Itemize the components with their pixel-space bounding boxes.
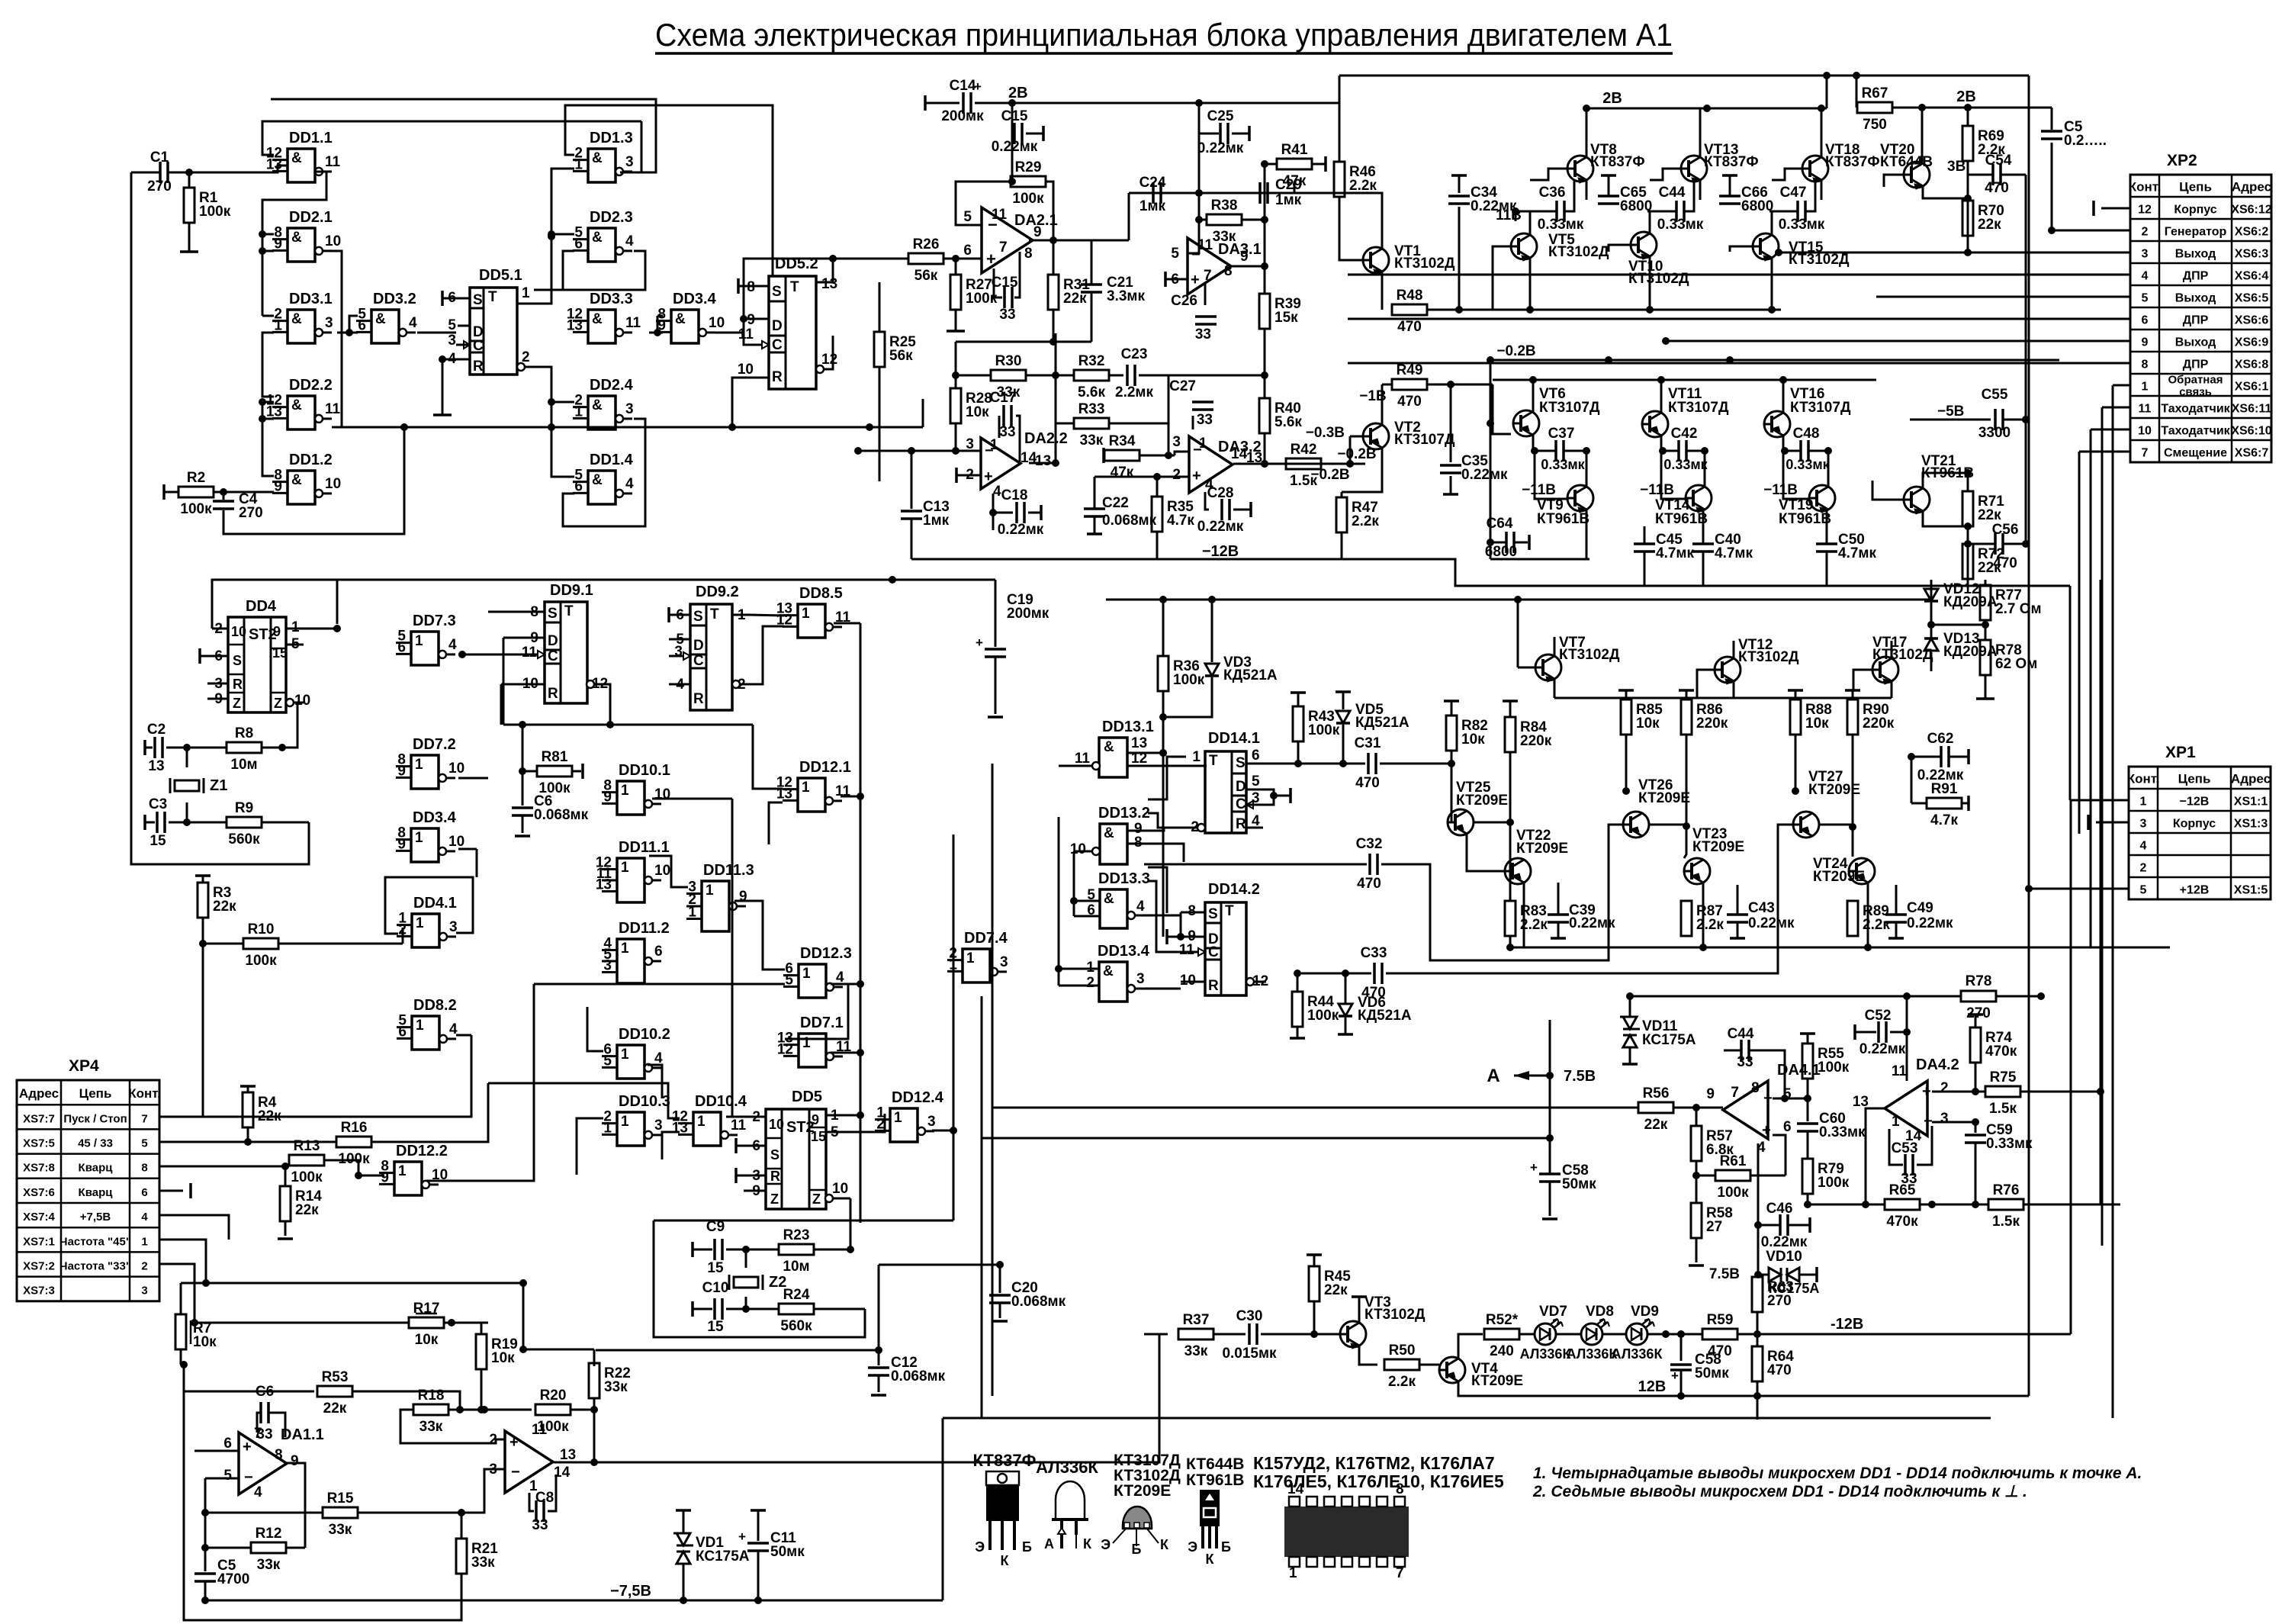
svg-text:C37: C37 bbox=[1548, 426, 1575, 442]
vx618c bbox=[203, 1035, 471, 1117]
transistor VT18 bbox=[1802, 156, 1828, 182]
svg-text:4: 4 bbox=[448, 637, 457, 653]
flip-flop DD5.1 bbox=[470, 288, 517, 375]
svg-text:S: S bbox=[233, 653, 242, 668]
svg-text:D: D bbox=[772, 318, 783, 334]
svg-text:11: 11 bbox=[625, 315, 641, 331]
wire XP2 pin2 bbox=[2052, 230, 2130, 232]
resistor R23 bbox=[746, 1249, 779, 1251]
svg-text:−: − bbox=[1193, 442, 1202, 458]
capacitor C43 bbox=[1727, 915, 1748, 922]
maze dd12.3 feed bbox=[534, 983, 785, 986]
svg-text:6800: 6800 bbox=[1485, 544, 1517, 560]
maze dd121b bbox=[769, 802, 783, 844]
svg-text:1: 1 bbox=[1192, 749, 1201, 765]
svg-text:S: S bbox=[1236, 755, 1246, 771]
svg-text:XP2: XP2 bbox=[2167, 152, 2197, 169]
transistor VT21 bbox=[1904, 487, 1930, 513]
capacitor C65 bbox=[1598, 196, 1619, 204]
wire DA2.2 out bbox=[1029, 462, 1056, 465]
led VD9 bbox=[1626, 1323, 1647, 1345]
wire VT1 emitter bbox=[1381, 272, 1384, 310]
svg-text:62 Ом: 62 Ом bbox=[1995, 656, 2037, 672]
resistor R14 bbox=[284, 1166, 287, 1186]
transistor VT24 bbox=[1849, 858, 1875, 884]
maze dd104 bbox=[488, 1083, 680, 1118]
capacitor C53 bbox=[1889, 1129, 1903, 1165]
svg-text:4: 4 bbox=[625, 233, 634, 249]
svg-text:&: & bbox=[592, 311, 603, 327]
svg-text:C43: C43 bbox=[1748, 900, 1775, 916]
svg-text:DD8.2: DD8.2 bbox=[413, 997, 457, 1014]
svg-text:DA1.1: DA1.1 bbox=[281, 1426, 324, 1443]
capacitor C12 bbox=[596, 1349, 879, 1352]
resistor R29 bbox=[1011, 176, 1046, 187]
svg-text:6: 6 bbox=[223, 1436, 232, 1452]
resistor R87 bbox=[1681, 901, 1692, 936]
ground to XP2 pin12 bbox=[2101, 207, 2130, 210]
svg-text:−0.2В: −0.2В bbox=[1496, 343, 1535, 359]
svg-text:C6: C6 bbox=[256, 1384, 274, 1400]
svg-text:C17: C17 bbox=[990, 390, 1017, 406]
svg-text:7.5В: 7.5В bbox=[1709, 1266, 1740, 1282]
maze dd41loop bbox=[385, 877, 473, 934]
svg-text:КТ837Ф: КТ837Ф bbox=[973, 1451, 1037, 1470]
svg-text:+: + bbox=[1762, 1122, 1771, 1139]
svg-text:Б: Б bbox=[1132, 1542, 1142, 1557]
gate DD1.4 bbox=[588, 471, 616, 504]
svg-text:220к: 220к bbox=[1520, 733, 1552, 749]
svg-text:9: 9 bbox=[812, 1112, 819, 1127]
svg-text:XS6:10: XS6:10 bbox=[2231, 425, 2271, 438]
gate DD13.2 bbox=[1100, 824, 1127, 864]
svg-text:220к: 220к bbox=[1696, 716, 1728, 732]
maze r10dd41 bbox=[402, 928, 404, 944]
transistor VT6 bbox=[1513, 410, 1539, 436]
svg-text:1: 1 bbox=[802, 1035, 811, 1051]
resistor R61 bbox=[1696, 1175, 1715, 1177]
resistor R89 bbox=[1847, 901, 1858, 936]
svg-text:C32: C32 bbox=[1356, 836, 1383, 852]
wire bbox=[522, 1283, 525, 1349]
svg-text:6: 6 bbox=[654, 944, 663, 960]
transistor VT9 bbox=[1567, 485, 1593, 511]
svg-text:3: 3 bbox=[325, 315, 333, 331]
svg-text:2.2к: 2.2к bbox=[1863, 917, 1890, 933]
svg-text:8: 8 bbox=[1224, 263, 1233, 279]
wire C31 line bbox=[1263, 763, 1365, 765]
svg-text:R65: R65 bbox=[1889, 1182, 1916, 1198]
wire dd5.2 12 out bbox=[824, 336, 833, 369]
wire XP2 pin3 bbox=[1779, 252, 2130, 254]
svg-text:+7,5В: +7,5В bbox=[80, 1211, 111, 1224]
resistor R34 bbox=[1102, 448, 1105, 463]
svg-text:КТ3102Д: КТ3102Д bbox=[1394, 256, 1455, 272]
resistor R26 bbox=[908, 253, 943, 264]
svg-text:8: 8 bbox=[141, 1162, 147, 1175]
svg-text:R29: R29 bbox=[1015, 159, 1042, 175]
wire XP4 pin7b bbox=[159, 1108, 203, 1117]
svg-text:R52*: R52* bbox=[1486, 1312, 1519, 1328]
svg-text:Адрес: Адрес bbox=[2231, 772, 2271, 786]
svg-text:Схема электрическая принципиал: Схема электрическая принципиальная блока… bbox=[655, 17, 1673, 53]
resistor R78b bbox=[1961, 991, 1996, 1002]
svg-text:−: − bbox=[511, 1464, 520, 1481]
svg-text:КТ209Е: КТ209Е bbox=[1808, 782, 1860, 798]
svg-text:10: 10 bbox=[654, 863, 670, 879]
wire x1408 bbox=[1073, 851, 1075, 916]
svg-text:0.068мк: 0.068мк bbox=[1102, 513, 1157, 529]
wire DA4.1 +in bbox=[1773, 1135, 1786, 1175]
svg-text:5: 5 bbox=[963, 209, 972, 225]
svg-text:10: 10 bbox=[448, 761, 464, 777]
wire XP1 pin1 bbox=[2071, 799, 2129, 802]
vx618b bbox=[471, 1035, 473, 1117]
svg-text:&: & bbox=[1104, 825, 1114, 841]
transistor VT10 bbox=[1631, 232, 1657, 258]
svg-text:DD12.1: DD12.1 bbox=[799, 759, 851, 776]
wire x1532 bbox=[1168, 375, 1170, 455]
w134f bbox=[1135, 988, 1181, 990]
svg-text:Z: Z bbox=[770, 1191, 779, 1207]
wire VT23 bbox=[1684, 826, 1686, 858]
wa bbox=[649, 856, 688, 887]
svg-text:VD8: VD8 bbox=[1586, 1304, 1614, 1320]
resistor R58 bbox=[1696, 1175, 1698, 1203]
maze dd102b bbox=[648, 1065, 662, 1098]
resistor R53 bbox=[184, 1365, 314, 1391]
svg-text:22к: 22к bbox=[1324, 1282, 1348, 1298]
svg-text:0.22мк: 0.22мк bbox=[998, 522, 1044, 538]
svg-text:33: 33 bbox=[999, 424, 1015, 440]
wire to VT5 bbox=[1493, 246, 1511, 310]
svg-text:КТ961В: КТ961В bbox=[1779, 511, 1831, 527]
svg-text:56к: 56к bbox=[889, 348, 913, 364]
gate DD3.4b bbox=[411, 828, 439, 862]
svg-text:100к: 100к bbox=[199, 204, 231, 220]
capacitor C33 bbox=[1374, 963, 1382, 984]
wire bbox=[271, 99, 656, 172]
diode VD13 bbox=[1924, 638, 1938, 651]
svg-text:DD3.2: DD3.2 bbox=[373, 291, 416, 307]
gate DD12.2 bbox=[394, 1162, 422, 1195]
wire rail2 bbox=[1106, 599, 1930, 601]
op-amp DA1.1 bbox=[239, 1433, 287, 1494]
wire VT15 c bbox=[1771, 211, 1773, 236]
gate DD11.1 bbox=[617, 858, 644, 902]
wire VT25 bbox=[1448, 764, 1451, 822]
svg-text:2: 2 bbox=[489, 1432, 497, 1448]
resistor R67 bbox=[1856, 76, 1858, 108]
resistor R85 bbox=[1618, 689, 1634, 692]
wire bbox=[534, 251, 574, 290]
capacitor C35 bbox=[1450, 384, 1452, 462]
wdd85b bbox=[834, 622, 860, 625]
wire C33 line bbox=[1297, 973, 1371, 975]
svg-text:0.22мк: 0.22мк bbox=[1748, 915, 1795, 931]
svg-text:R24: R24 bbox=[783, 1287, 810, 1303]
svg-text:33к: 33к bbox=[1080, 433, 1104, 449]
svg-text:&: & bbox=[375, 311, 386, 327]
svg-text:Адрес: Адрес bbox=[2232, 180, 2271, 195]
wdd13g bbox=[1148, 867, 1167, 913]
capacitor C30 bbox=[1249, 1323, 1257, 1345]
svg-text:DD13.1: DD13.1 bbox=[1102, 719, 1154, 735]
resistor R74 bbox=[1968, 1013, 1983, 1016]
wire bbox=[565, 105, 773, 276]
wire y950 bus bbox=[503, 724, 753, 726]
transistor VT8 bbox=[1567, 156, 1593, 182]
svg-text:C46: C46 bbox=[1766, 1201, 1793, 1217]
wire +12V row bbox=[2028, 889, 2030, 947]
svg-text:C62: C62 bbox=[1927, 731, 1954, 747]
svg-text:XS7:4: XS7:4 bbox=[23, 1211, 55, 1224]
svg-text:2.2к: 2.2к bbox=[1696, 917, 1724, 933]
capacitor C46 bbox=[1780, 1214, 1788, 1236]
svg-text:240: 240 bbox=[1490, 1343, 1514, 1359]
svg-text:0.22мк: 0.22мк bbox=[1461, 467, 1508, 483]
resistor R41 bbox=[1265, 163, 1277, 166]
svg-text:1мк: 1мк bbox=[923, 513, 950, 529]
resistor R90 bbox=[1845, 689, 1860, 692]
wire R70 to out3 bbox=[1967, 236, 1969, 252]
svg-text:13: 13 bbox=[1131, 735, 1147, 751]
wire bbox=[551, 401, 574, 404]
capacitor C44b bbox=[1676, 201, 1684, 222]
svg-text:DD11.2: DD11.2 bbox=[619, 920, 670, 937]
svg-text:DD12.4: DD12.4 bbox=[892, 1089, 944, 1106]
svg-text:АЛ336К: АЛ336К bbox=[1520, 1346, 1572, 1362]
svg-text:33к: 33к bbox=[329, 1522, 352, 1538]
svg-text:1: 1 bbox=[2142, 381, 2149, 394]
svg-text:5: 5 bbox=[448, 317, 456, 333]
resistor R47 bbox=[1341, 492, 1343, 497]
svg-text:КТ209Е: КТ209Е bbox=[1456, 793, 1508, 809]
svg-text:Таходатчик: Таходатчик bbox=[2161, 425, 2230, 438]
capacitor C55 bbox=[1995, 409, 2003, 430]
capacitor C36 bbox=[1516, 211, 1556, 221]
wire VT14 col bbox=[1704, 451, 1706, 487]
svg-text:КТ3107Д: КТ3107Д bbox=[1790, 400, 1851, 416]
svg-text:0.33мк: 0.33мк bbox=[1657, 217, 1704, 233]
svg-text:22к: 22к bbox=[323, 1400, 347, 1417]
svg-text:33: 33 bbox=[256, 1426, 272, 1442]
wire dd5.1 C bbox=[456, 344, 470, 346]
op-amp DA3.2 bbox=[1189, 436, 1233, 493]
wire bbox=[551, 169, 574, 236]
svg-text:10м: 10м bbox=[230, 757, 257, 773]
svg-text:7: 7 bbox=[1204, 268, 1212, 284]
svg-text:0.068мк: 0.068мк bbox=[534, 807, 589, 823]
svg-text:C49: C49 bbox=[1907, 900, 1933, 916]
svg-text:КТ644В: КТ644В bbox=[1186, 1455, 1244, 1473]
svg-text:13: 13 bbox=[148, 758, 164, 774]
wire bbox=[649, 316, 657, 333]
resistor R7 bbox=[180, 1283, 182, 1314]
transistor VT16 bbox=[1764, 411, 1790, 437]
svg-text:1: 1 bbox=[621, 1114, 629, 1130]
wire DA2.2 +in bbox=[955, 468, 958, 483]
svg-text:C31: C31 bbox=[1355, 735, 1381, 751]
svg-text:13: 13 bbox=[821, 276, 837, 292]
svg-text:4: 4 bbox=[993, 484, 1001, 500]
svg-text:3300: 3300 bbox=[1978, 425, 2011, 441]
wire dd2.3 out bbox=[563, 251, 645, 290]
svg-text:DD3.4: DD3.4 bbox=[413, 809, 457, 826]
svg-text:3: 3 bbox=[141, 1285, 147, 1298]
svg-text:33: 33 bbox=[1737, 1054, 1753, 1070]
capacitor C56 bbox=[1995, 533, 2003, 555]
svg-text:1.5к: 1.5к bbox=[1992, 1214, 2020, 1230]
svg-text:Конт.: Конт. bbox=[128, 1086, 161, 1101]
r64c bbox=[1757, 1381, 1759, 1396]
svg-text:C27: C27 bbox=[1169, 378, 1196, 394]
svg-text:T: T bbox=[1225, 903, 1234, 919]
svg-text:4.7мк: 4.7мк bbox=[1656, 545, 1694, 561]
resistor R24 bbox=[746, 1308, 779, 1310]
svg-text:DD11.3: DD11.3 bbox=[703, 862, 754, 879]
svg-text:1.5к: 1.5к bbox=[1989, 1101, 2017, 1117]
svg-text:2В: 2В bbox=[1602, 90, 1622, 107]
svg-text:−7,5В: −7,5В bbox=[610, 1583, 651, 1600]
gate DD10.4 bbox=[693, 1112, 721, 1146]
wire C66 to VT15 base bbox=[1730, 246, 1753, 252]
svg-text:Пуск / Стоп: Пуск / Стоп bbox=[63, 1112, 127, 1125]
gate DD12.3 bbox=[799, 964, 826, 998]
capacitor C5 bbox=[2051, 108, 2053, 130]
wire VT18 base bbox=[1772, 169, 1802, 180]
wire bbox=[1931, 624, 1985, 626]
resistor R69 bbox=[1967, 108, 1969, 126]
svg-text:470к: 470к bbox=[1886, 1214, 1918, 1230]
svg-text:7: 7 bbox=[999, 240, 1008, 256]
svg-text:9: 9 bbox=[291, 1453, 299, 1469]
svg-text:12: 12 bbox=[2138, 204, 2152, 217]
svg-text:1: 1 bbox=[415, 830, 423, 846]
wire dd5.2 D bbox=[744, 318, 769, 320]
wire bbox=[262, 251, 264, 316]
op-amp DA3.1 bbox=[1188, 238, 1231, 294]
resistor R82 bbox=[1444, 699, 1459, 703]
capacitor C42 bbox=[1679, 440, 1686, 461]
block DD5 bbox=[766, 1109, 826, 1209]
svg-text:КТ209Е: КТ209Е bbox=[1471, 1373, 1523, 1389]
svg-text:ДПР: ДПР bbox=[2183, 314, 2209, 327]
svg-text:2.2к: 2.2к bbox=[1520, 917, 1548, 933]
svg-text:DD7.2: DD7.2 bbox=[413, 736, 456, 753]
svg-text:C9: C9 bbox=[706, 1219, 725, 1235]
svg-text:100к: 100к bbox=[1307, 1008, 1339, 1024]
svg-text:5.6к: 5.6к bbox=[1274, 414, 1302, 430]
svg-text:100к: 100к bbox=[291, 1169, 323, 1185]
gate DD1.1 bbox=[288, 149, 315, 182]
svg-text:DD9.1: DD9.1 bbox=[550, 582, 593, 599]
dd41f bbox=[456, 905, 473, 933]
svg-text:−11В: −11В bbox=[1640, 482, 1674, 498]
wire bbox=[262, 315, 274, 317]
svg-text:4: 4 bbox=[625, 476, 634, 492]
svg-text:R53: R53 bbox=[322, 1369, 349, 1385]
wire feedback2 bbox=[955, 342, 957, 375]
svg-text:АЛ336К: АЛ336К bbox=[1567, 1346, 1618, 1362]
r63b bbox=[1757, 1275, 1758, 1275]
capacitor C59b bbox=[1975, 1122, 1977, 1133]
svg-text:&: & bbox=[291, 230, 302, 246]
svg-text:0.33мк: 0.33мк bbox=[1538, 217, 1584, 233]
svg-text:4: 4 bbox=[254, 1484, 262, 1500]
svg-text:S: S bbox=[1208, 906, 1218, 922]
resistor R31 bbox=[1053, 240, 1055, 275]
svg-text:АЛ336К: АЛ336К bbox=[1612, 1346, 1663, 1362]
transistor VT19 bbox=[1809, 485, 1835, 511]
svg-text:Таходатчик: Таходатчик bbox=[2161, 403, 2230, 416]
wire dd5.2 S bbox=[737, 278, 740, 294]
gate DD13.4 bbox=[1099, 962, 1127, 1002]
svg-text:5: 5 bbox=[141, 1137, 147, 1150]
svg-text:R61: R61 bbox=[1720, 1153, 1747, 1169]
wire C32 line bbox=[1144, 863, 1367, 866]
svg-text:2: 2 bbox=[1086, 975, 1094, 991]
wire top bus bbox=[1339, 75, 2029, 77]
svg-text:14: 14 bbox=[1231, 446, 1248, 462]
svg-text:DD3.3: DD3.3 bbox=[590, 291, 633, 307]
svg-text:T: T bbox=[710, 606, 719, 622]
svg-text:0.33мк: 0.33мк bbox=[1541, 457, 1585, 472]
wire R64 bot bbox=[1757, 1381, 1759, 1396]
transistor VT17 bbox=[1872, 657, 1898, 683]
resistor R57 bbox=[1696, 1108, 1698, 1126]
svg-text:DD1.2: DD1.2 bbox=[289, 452, 333, 468]
svg-text:0.22мк: 0.22мк bbox=[1907, 915, 1953, 931]
wire VT26 e bbox=[1649, 824, 1686, 826]
gate DD13.3 bbox=[1100, 889, 1127, 928]
resistor R38 bbox=[1199, 219, 1207, 221]
svg-text:0.22мк: 0.22мк bbox=[1197, 140, 1244, 156]
svg-text:2.2к: 2.2к bbox=[1352, 513, 1379, 529]
svg-text:R49: R49 bbox=[1397, 362, 1423, 378]
svg-text:C10: C10 bbox=[702, 1280, 729, 1296]
r64b bbox=[1757, 1381, 1759, 1420]
wire dd5.2 C bbox=[744, 333, 762, 345]
svg-text:XS6:11: XS6:11 bbox=[2232, 403, 2272, 416]
svg-text:+: + bbox=[243, 1439, 252, 1455]
zener VD11 bbox=[1629, 996, 1631, 1017]
svg-text:XS7:5: XS7:5 bbox=[23, 1137, 55, 1150]
wire XP4 pin4 bbox=[159, 1215, 229, 1240]
svg-text:3В: 3В bbox=[1947, 159, 1966, 175]
resistor R10 bbox=[203, 943, 243, 945]
link dd73 out bbox=[458, 654, 533, 656]
ground bbox=[1985, 688, 1987, 699]
svg-text:1: 1 bbox=[522, 285, 530, 301]
wire DA4.2 + bbox=[1932, 1091, 1975, 1093]
svg-text:КС175А: КС175А bbox=[696, 1548, 750, 1565]
capacitor C39 bbox=[1548, 915, 1569, 922]
svg-text:7: 7 bbox=[1731, 1085, 1739, 1101]
svg-text:4: 4 bbox=[141, 1211, 148, 1224]
wire emitter bus r1 bbox=[1493, 309, 1781, 311]
wire XP2 pin5b bbox=[1876, 296, 2130, 298]
wire DA2.2 -in line bbox=[858, 450, 981, 452]
capacitor C34 bbox=[1451, 174, 1467, 177]
svg-text:S: S bbox=[548, 606, 558, 622]
svg-text:S: S bbox=[693, 609, 703, 625]
svg-text:R18: R18 bbox=[418, 1388, 445, 1404]
svg-text:XS7:1: XS7:1 bbox=[23, 1235, 55, 1248]
svg-text:XS6:1: XS6:1 bbox=[2235, 381, 2269, 394]
svg-text:C2: C2 bbox=[147, 722, 166, 738]
svg-text:R: R bbox=[772, 369, 783, 385]
